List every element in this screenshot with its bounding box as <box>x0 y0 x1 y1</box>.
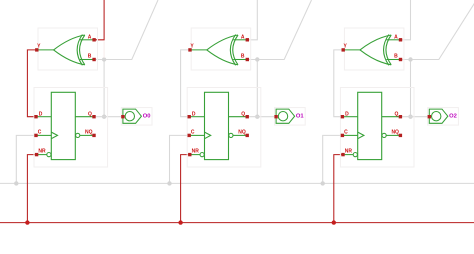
FF2 pin NQ square <box>246 134 249 137</box>
junction node B net (stage 3) <box>408 57 412 61</box>
FF1 pin NR square <box>35 153 38 156</box>
flip-flop FF2 body <box>205 92 229 159</box>
wire: clock-A net into XOR2 input A <box>247 0 257 40</box>
svg-text:Y: Y <box>344 43 348 49</box>
svg-text:O1: O1 <box>296 113 305 119</box>
FF1 pin NQ square <box>92 134 95 137</box>
wire: FF3 NR down to reset bus <box>334 155 343 223</box>
xor U3 pin Y square <box>342 48 345 51</box>
wire: vertical segment of B net (stage 1) <box>103 60 105 117</box>
FF3 pin Q square <box>399 115 402 118</box>
svg-text:D: D <box>192 112 196 118</box>
FF3 pin NR square <box>341 153 344 156</box>
xor U2 output stub Y <box>190 49 207 51</box>
xor gate U2 body <box>207 35 238 66</box>
xor U2 input stub A <box>233 39 247 41</box>
wire: FF3 Q to output connector <box>400 116 429 118</box>
output connector O0 body <box>123 109 141 123</box>
FF2 NQ inversion bubble <box>229 133 233 137</box>
wire: XOR2 output Y to FF2 input D <box>181 50 190 117</box>
junction on reset bus (stage 2) <box>178 220 182 224</box>
clock rail (gray horizontal net) <box>0 182 474 184</box>
svg-text:C: C <box>344 129 348 135</box>
junction node Q net (stage 3) <box>408 115 412 119</box>
xor U2 pin B square <box>246 58 249 61</box>
xor U3 pin B square <box>399 58 402 61</box>
output connector O2 bounding box <box>428 108 459 126</box>
flip-flop FF3 body <box>358 92 382 159</box>
FF3 pin Q stub <box>382 116 401 118</box>
output connector O0 pin square <box>121 115 124 118</box>
FF2 pin Q stub <box>229 116 248 118</box>
junction node B net (stage 1) <box>102 57 106 61</box>
output connector O1 pin square <box>274 115 277 118</box>
svg-text:A: A <box>241 34 245 40</box>
FF2 NR inversion bubble <box>200 153 204 157</box>
svg-text:A: A <box>88 34 92 40</box>
xor U2 pin A square <box>246 38 249 41</box>
wire: vertical segment of B net (stage 2) <box>256 60 258 117</box>
xor gate U1 bounding box <box>38 28 98 70</box>
FF1 pin C stub <box>36 134 51 136</box>
svg-text:Q: Q <box>88 112 92 118</box>
FF1 pin C square <box>34 134 37 137</box>
FF3 pin C square <box>341 134 344 137</box>
FF3 pin C stub <box>342 134 357 136</box>
wire: clock-A net into XOR1 input A <box>94 0 104 40</box>
FF1 pin D stub <box>36 116 51 118</box>
xor gate U1 body <box>54 35 85 66</box>
svg-text:O2: O2 <box>449 113 457 119</box>
svg-text:Q: Q <box>394 112 398 118</box>
xor U3 input stub A <box>386 39 400 41</box>
svg-text:NQ: NQ <box>238 130 246 136</box>
FF2 pin C stub <box>189 134 204 136</box>
xor U3 pin A square <box>399 38 402 41</box>
FF2 pin D square <box>188 115 191 118</box>
xor gate U3 body <box>360 35 391 66</box>
FF1 pin Q stub <box>75 116 94 118</box>
FF1 NQ inversion bubble <box>76 133 80 137</box>
output connector O1 bounding box <box>275 108 306 126</box>
FF1 pin D square <box>34 115 37 118</box>
FF2 pin NR stub <box>190 154 200 156</box>
flip-flop FF1 bounding box <box>34 88 108 168</box>
FF3 pin NR stub <box>343 154 353 156</box>
svg-text:NR: NR <box>192 148 200 154</box>
xor U2 pin Y square <box>188 48 191 51</box>
svg-text:Y: Y <box>190 43 194 49</box>
junction on clock rail (stage 2) <box>167 181 171 185</box>
FF2 pin Q square <box>246 115 249 118</box>
FF2 pin C square <box>188 134 191 137</box>
svg-text:C: C <box>38 129 42 135</box>
junction node B net (stage 2) <box>255 57 259 61</box>
xor gate U3 bounding box <box>344 28 404 70</box>
FF3 NQ inversion bubble <box>382 133 386 137</box>
output connector O2 circle <box>432 112 441 121</box>
svg-text:NQ: NQ <box>85 130 93 136</box>
FF3 pin NQ stub <box>386 134 400 136</box>
svg-text:D: D <box>345 112 349 118</box>
wire: vertical segment of B net (stage 3) <box>410 60 412 117</box>
wire: FF1 Q to output connector <box>94 116 123 118</box>
FF3 NR inversion bubble <box>353 153 357 157</box>
wire: FF3 C clock to clock rail <box>323 135 343 183</box>
junction on clock rail (stage 3) <box>321 181 325 185</box>
output connector O0 bounding box <box>121 108 152 126</box>
output connector O1 circle <box>278 112 287 121</box>
xor U1 pin B square <box>92 58 95 61</box>
svg-text:NR: NR <box>345 148 353 154</box>
xor U1 input stub A <box>80 39 94 41</box>
xor U2 input stub B <box>233 59 247 61</box>
xor U3 input stub B <box>386 59 400 61</box>
xor U3 output stub Y <box>343 49 360 51</box>
FF1 pin NR stub <box>37 154 47 156</box>
wire: XOR3 output Y to FF3 input D <box>334 50 343 117</box>
wire: FF2 C clock to clock rail <box>170 135 190 183</box>
svg-text:B: B <box>241 54 245 60</box>
flip-flop FF2 bounding box <box>187 88 261 168</box>
svg-text:B: B <box>394 54 398 60</box>
FF3 clock triangle <box>358 132 364 139</box>
xor U1 pin Y square <box>35 48 38 51</box>
wire: XOR1 output Y to FF1 input D <box>27 50 36 117</box>
svg-text:D: D <box>39 112 43 118</box>
FF2 pin NR square <box>188 153 191 156</box>
output connector O2 body <box>429 109 448 123</box>
wire: FF2 NR down to reset bus <box>181 155 190 223</box>
junction on reset bus (stage 1) <box>25 220 29 224</box>
wire: feedback net from FF2 Q up to XOR2 input B and off top <box>247 0 311 60</box>
svg-text:NR: NR <box>38 148 46 154</box>
xor U1 input stub B <box>80 59 94 61</box>
junction node Q net (stage 1) <box>102 115 106 119</box>
svg-text:B: B <box>88 54 92 60</box>
svg-text:NQ: NQ <box>391 130 399 136</box>
faint net highlight segment (stage 1) <box>103 41 105 58</box>
xor gate U2 bounding box <box>191 28 251 70</box>
output connector O1 body <box>276 109 295 123</box>
FF3 pin NQ square <box>399 134 402 137</box>
junction on reset bus (stage 3) <box>332 220 336 224</box>
xor U1 pin A square <box>92 38 95 41</box>
wire: clock-A net into XOR3 input A <box>401 0 411 40</box>
wire: FF1 NR down to reset bus <box>27 155 36 223</box>
wire: feedback net from FF1 Q up to XOR1 input B and off top <box>94 0 158 60</box>
reset bus (red horizontal net) <box>0 222 474 224</box>
svg-text:Q: Q <box>241 112 245 118</box>
svg-text:Y: Y <box>37 43 41 49</box>
wire: feedback net from FF3 Q up to XOR3 input B and off top <box>401 0 474 60</box>
FF2 pin D stub <box>189 116 204 118</box>
flip-flop FF1 body <box>51 92 75 159</box>
junction on clock rail (stage 1) <box>14 181 18 185</box>
wire: FF1 C clock to clock rail <box>16 135 36 183</box>
FF2 clock triangle <box>205 132 211 139</box>
FF1 clock triangle <box>51 132 57 139</box>
wire: FF2 Q to output connector <box>247 116 276 118</box>
FF3 pin D stub <box>342 116 357 118</box>
FF1 NR inversion bubble <box>47 153 51 157</box>
junction node Q net (stage 2) <box>255 115 259 119</box>
FF2 pin NQ stub <box>233 134 247 136</box>
FF3 pin D square <box>341 115 344 118</box>
flip-flop FF3 bounding box <box>340 88 414 168</box>
output connector O0 circle <box>125 112 134 121</box>
svg-text:C: C <box>191 129 195 135</box>
svg-text:O0: O0 <box>143 113 151 119</box>
output connector O2 pin square <box>428 115 431 118</box>
FF1 pin NQ stub <box>80 134 94 136</box>
FF1 pin Q square <box>92 115 95 118</box>
svg-text:A: A <box>394 34 398 40</box>
xor U1 output stub Y <box>37 49 54 51</box>
